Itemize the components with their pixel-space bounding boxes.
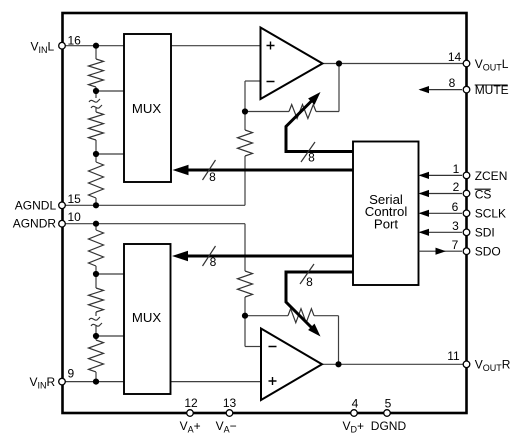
pin 15 <box>59 202 66 209</box>
resistor feedback L <box>238 130 253 156</box>
svg-text:12: 12 <box>184 396 198 410</box>
wire U2 minus input <box>245 346 261 348</box>
pin 12 <box>187 410 194 417</box>
node: ladder L tap 2 <box>93 151 99 157</box>
wire ladder R between R1 and R2 <box>95 266 97 288</box>
pin 7 <box>463 248 470 255</box>
pin 14 <box>463 60 470 67</box>
svg-text:1: 1 <box>453 162 460 176</box>
svg-text:MUX: MUX <box>132 310 162 325</box>
node: ladder R AGNDR <box>93 221 99 227</box>
wire tap R2 to MUX <box>96 335 124 337</box>
wire pin9 to op-amp U2 + input <box>62 381 261 383</box>
pin 8 <box>463 86 470 93</box>
wire pin16 to op-amp U1 + input <box>62 45 261 47</box>
op-amp U1 (left channel) <box>261 28 323 100</box>
MUTE input arrow <box>419 86 463 93</box>
wire ladder R between R2 and R3 <box>95 312 97 340</box>
wire U1 minus input <box>245 80 261 82</box>
wire tap L2 to MUX <box>96 153 124 155</box>
svg-text:15: 15 <box>68 192 82 206</box>
wire ladder R bottom <box>95 372 97 382</box>
ZCEN input arrow <box>419 172 463 179</box>
wire U1 output drop <box>338 64 340 112</box>
MUX U3 (left channel) <box>124 34 171 182</box>
resistor ladder L R1 <box>89 59 104 87</box>
node: ladder L tap 1 <box>93 88 99 94</box>
wire AGNDL <box>62 204 245 206</box>
svg-text:16: 16 <box>68 34 82 48</box>
node: U1 minus junction <box>242 108 248 114</box>
svg-text:14: 14 <box>448 50 462 64</box>
svg-text:8: 8 <box>449 76 456 90</box>
pin 13 <box>226 410 233 417</box>
MUX U4 (right channel) <box>124 244 171 394</box>
Serial Control Port U5 <box>353 142 419 286</box>
pin 9 <box>59 378 66 385</box>
node: U1 output junction <box>336 60 342 66</box>
break squiggle ladder L <box>89 98 103 108</box>
resistor ladder R R3 <box>89 340 104 372</box>
wire U2 feedback horizontal left <box>245 315 288 317</box>
svg-text:11: 11 <box>447 349 460 363</box>
svg-text:10: 10 <box>68 210 82 224</box>
svg-text:SCLK: SCLK <box>475 207 506 221</box>
node: pin9/ladder R bottom <box>93 379 99 385</box>
svg-text:VINL: VINL <box>31 39 55 55</box>
svg-text:VD+: VD+ <box>343 419 365 435</box>
node: pin16/ladder L top <box>93 43 99 49</box>
pin 10 <box>59 220 66 227</box>
svg-text:MUX: MUX <box>132 101 162 116</box>
wire U2 feedback horizontal right <box>314 315 339 317</box>
SCLK input arrow <box>419 210 463 217</box>
wire ladder L between R1 and R2 <box>95 87 97 112</box>
wire feedback R bottom to minus node <box>244 297 246 347</box>
resistor ladder L R3 <box>89 162 104 198</box>
svg-text:2: 2 <box>453 180 460 194</box>
svg-text:AGNDR: AGNDR <box>13 216 57 230</box>
pin 6 <box>463 210 470 217</box>
svg-text:VOUTL: VOUTL <box>475 57 509 73</box>
pin 5 <box>384 410 391 417</box>
pin 16 <box>59 42 66 49</box>
wire ladder R top <box>95 224 97 230</box>
svg-text:VINR: VINR <box>30 375 56 391</box>
bus A: gain control to MUX U3 <box>173 160 354 184</box>
bus D: wiper control to VR2 <box>286 264 353 337</box>
op-amp U2 (right channel) <box>261 329 322 401</box>
svg-text:9: 9 <box>68 367 75 381</box>
node: ladder L AGNDL <box>93 202 99 208</box>
wire U1 output to pin 14 <box>323 63 467 65</box>
svg-text:VA−: VA− <box>216 419 237 435</box>
pin number labels <box>68 34 462 411</box>
wire tap L1 to MUX <box>96 90 124 92</box>
node: U2 output junction <box>335 361 341 367</box>
svg-text:8: 8 <box>306 275 313 289</box>
wire ladder L bottom <box>95 198 97 205</box>
pin circles <box>59 42 470 416</box>
SDI input arrow <box>419 229 463 236</box>
node: ladder R tap 1 <box>93 271 99 277</box>
CS input arrow <box>419 190 463 197</box>
svg-text:5: 5 <box>385 397 392 411</box>
wire ladder L between R2 and R3 <box>95 140 97 162</box>
svg-text:6: 6 <box>452 200 459 214</box>
resistor ladder R R1 <box>89 230 104 266</box>
wire AGNDR <box>62 223 245 225</box>
resistor feedback R2ch <box>238 271 253 297</box>
wire U2 output to pin 11 <box>322 363 466 365</box>
svg-text:SDI: SDI <box>475 226 495 240</box>
svg-text:8: 8 <box>308 151 315 165</box>
bus C: gain control to MUX U4 <box>172 246 353 269</box>
wire AGNDL riser to feedback R <box>244 156 246 205</box>
pin 1 <box>463 172 470 179</box>
wire U1 feedback horizontal left <box>245 111 289 113</box>
wire ladder L vertical top <box>95 46 97 59</box>
svg-text:VOUTR: VOUTR <box>475 358 511 374</box>
break squiggle ladder R <box>89 316 103 326</box>
wire U1 feedback horizontal right <box>316 111 339 113</box>
SDO output arrow <box>419 248 463 255</box>
svg-text:8: 8 <box>210 255 217 269</box>
resistor ladder L R2 <box>89 112 104 140</box>
svg-text:AGNDL: AGNDL <box>15 198 57 212</box>
variable resistor VR1 zigzag <box>289 105 316 119</box>
wire feedback R top to minus node <box>244 81 246 130</box>
node: U2 minus junction <box>242 313 248 319</box>
outer IC border <box>63 13 467 413</box>
pin 4 <box>351 410 358 417</box>
wire tap R1 to MUX <box>96 273 124 275</box>
svg-text:SDO: SDO <box>475 245 501 259</box>
svg-text:3: 3 <box>452 219 459 233</box>
resistor ladder R R2 <box>89 288 104 312</box>
svg-text:Port: Port <box>374 217 399 232</box>
svg-text:DGND: DGND <box>371 419 407 433</box>
svg-text:ZCEN: ZCEN <box>475 169 508 183</box>
svg-text:13: 13 <box>223 396 237 410</box>
bus B: wiper control to VR1 <box>286 92 353 165</box>
wire U2 output rise <box>338 316 340 365</box>
svg-text:8: 8 <box>209 170 216 184</box>
pin 3 <box>463 229 470 236</box>
node: ladder R tap 2 <box>93 333 99 339</box>
pin 2 <box>463 190 470 197</box>
pin 11 <box>463 361 470 368</box>
svg-text:VA+: VA+ <box>180 419 201 435</box>
wire AGNDR drop to feedback R <box>244 224 246 271</box>
variable resistor VR2 zigzag <box>288 309 314 323</box>
svg-text:7: 7 <box>452 238 459 252</box>
svg-text:4: 4 <box>352 397 359 411</box>
